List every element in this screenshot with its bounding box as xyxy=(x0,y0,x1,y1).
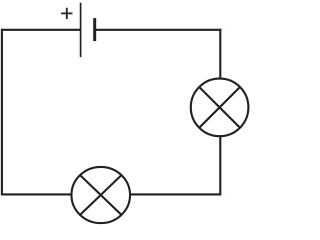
lamp bottom: envelope circle xyxy=(71,167,130,223)
wire top-left (left rail to battery positive plate) xyxy=(2,29,81,31)
wire left rail xyxy=(1,29,3,196)
battery negative plate (short thick) xyxy=(93,18,96,41)
label + (battery polarity mark) xyxy=(61,8,72,19)
battery positive plate (long thin) xyxy=(80,3,82,57)
wire right rail upper (top wire to right lamp top) xyxy=(219,29,221,79)
lamp bottom: X cross xyxy=(80,175,121,215)
wire right rail lower (right lamp bottom to bottom wire) xyxy=(219,136,221,195)
wire top-right (battery negative plate to right rail) xyxy=(95,29,222,31)
wire bottom-right (bottom lamp to right rail) xyxy=(130,193,221,195)
lamp right: envelope circle xyxy=(191,79,249,137)
lamp right: X cross xyxy=(199,87,240,128)
wire bottom-left (left rail to bottom lamp) xyxy=(2,193,72,195)
